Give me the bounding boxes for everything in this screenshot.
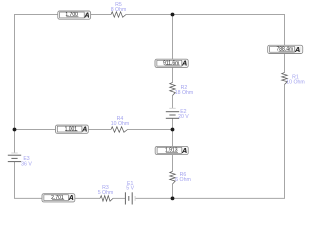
ammeter M2 reading 1.001 A: [56, 125, 89, 134]
wire: middle horizontal segment 3: [128, 129, 173, 131]
battery E2 20 V: [166, 108, 189, 120]
wire: right rail upper: [284, 15, 286, 46]
wire: bottom rail segment 2: [75, 197, 100, 199]
svg-text:8 Ohm: 8 Ohm: [111, 7, 127, 13]
wire: middle horizontal segment 2: [89, 129, 112, 131]
svg-text:788.4m: 788.4m: [277, 47, 294, 53]
svg-text:A: A: [181, 59, 187, 68]
node junction: left rail / middle horizontal: [13, 128, 17, 132]
resistor R6 6 Ohm: [170, 171, 191, 184]
ammeter M5 reading 1.913 A: [155, 146, 188, 155]
wire: lower middle branch below R6: [172, 184, 174, 198]
svg-text:A: A: [83, 11, 89, 20]
resistor R4 10 Ohm: [111, 116, 129, 132]
wire: top rail segment 2: [91, 14, 111, 16]
node junction: middle branch / middle horizontal: [171, 128, 175, 132]
resistor R2 18 Ohm: [170, 83, 193, 96]
ammeter M4 reading 788.4m A: [268, 45, 303, 54]
wire: lower middle branch stub above ammeter M5: [172, 130, 174, 147]
svg-text:10 Ohm: 10 Ohm: [111, 121, 129, 127]
wire: right rail middle: [284, 54, 286, 73]
svg-text:1.913: 1.913: [165, 148, 178, 154]
svg-text:20 V: 20 V: [178, 114, 189, 120]
wire: middle branch stub above ammeter M3: [172, 15, 174, 60]
ammeter M6 reading 2.701 A: [42, 193, 75, 202]
wire: left rail upper: [14, 15, 16, 153]
svg-text:A: A: [81, 125, 87, 134]
node junction: bottom rail / lower middle branch: [171, 197, 175, 201]
svg-text:A: A: [181, 146, 187, 155]
wire: right rail lower: [284, 85, 286, 199]
svg-text:6 Ohm: 6 Ohm: [175, 177, 191, 183]
svg-text:10 Ohm: 10 Ohm: [286, 79, 304, 85]
svg-text:5 Ohm: 5 Ohm: [98, 190, 114, 196]
wire: middle branch between M3 and R2: [172, 67, 174, 82]
wire: middle branch between R2 and E2: [172, 96, 174, 109]
svg-text:2.701: 2.701: [51, 195, 64, 201]
wire: left rail lower: [14, 162, 16, 199]
svg-text:A: A: [294, 45, 300, 54]
battery E1 5 V: [125, 181, 135, 205]
wire: bottom rail segment 3: [113, 197, 125, 199]
wire: lower middle branch between M5 and R6: [172, 155, 174, 172]
svg-text:1.700: 1.700: [65, 12, 78, 18]
resistor R5 8 Ohm: [111, 2, 127, 17]
wire: top rail segment 1: [14, 14, 58, 16]
wire: bottom rail segment 1: [14, 197, 42, 199]
svg-text:1.001: 1.001: [65, 126, 78, 132]
battery E3 36 V: [8, 153, 33, 167]
svg-text:A: A: [68, 193, 74, 202]
ammeter M3 reading 911.6m A: [155, 59, 188, 68]
svg-text:5 V: 5 V: [126, 186, 134, 192]
svg-text:911.6m: 911.6m: [163, 60, 179, 66]
svg-text:36 V: 36 V: [21, 161, 32, 167]
wire: middle branch below E2: [172, 118, 174, 129]
node junction: top rail / middle branch: [171, 13, 175, 17]
ammeter M1 reading 1.700 A: [58, 11, 91, 20]
wire: bottom rail segment 4: [135, 197, 285, 199]
resistor R1 10 Ohm: [282, 73, 305, 86]
resistor R3 5 Ohm: [98, 185, 114, 201]
wire: middle horizontal segment 1: [14, 129, 56, 131]
wire: top rail segment 3: [126, 14, 285, 16]
svg-text:18 Ohm: 18 Ohm: [175, 90, 193, 96]
